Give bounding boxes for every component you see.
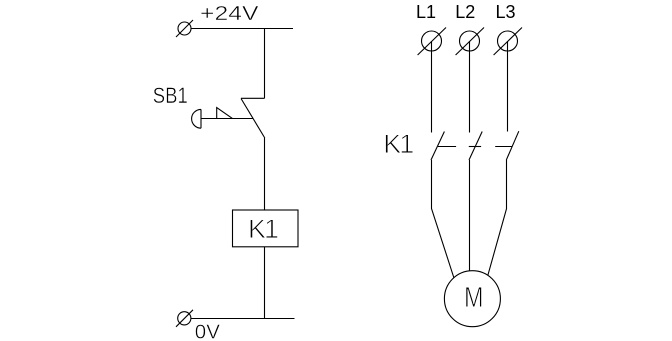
pushbutton SB1 spring-return triangle: [217, 108, 233, 119]
terminal +24V: [176, 20, 193, 37]
contact SB1 fixed-terminal jog: [241, 97, 265, 99]
svg-text:+24V: +24V: [200, 2, 259, 25]
wire pole 2 to motor: [469, 160, 471, 271]
svg-text:SB1: SB1: [153, 83, 188, 108]
svg-text:L1: L1: [416, 2, 436, 22]
mechanical linkage dash 1: [438, 146, 456, 148]
svg-text:L3: L3: [496, 2, 516, 22]
wire +24V bus: [191, 28, 293, 30]
wire L3 to contact pole 3: [507, 41, 509, 132]
terminal 0V: [176, 310, 193, 327]
pushbutton SB1 actuator: [192, 109, 201, 128]
svg-text:K1: K1: [383, 129, 413, 159]
wire L1 to contact pole 1: [431, 41, 433, 133]
svg-text:K1: K1: [248, 214, 278, 244]
pushbutton SB1 plunger rod: [201, 118, 253, 120]
terminal L3: [494, 28, 522, 56]
wire K1 coil to 0V bus: [264, 247, 266, 319]
terminal L1: [418, 28, 446, 56]
wire junction down to SB1 fixed contact: [264, 29, 266, 99]
contact K1 pole 3 moving contact: [506, 131, 519, 160]
contact SB1 moving contact: [241, 99, 265, 139]
contact K1 pole 2 moving contact: [469, 132, 482, 161]
motor M circle: [444, 271, 500, 327]
relay coil K1: [233, 210, 299, 247]
mechanical linkage dash 3: [495, 146, 512, 148]
wire pole 1 to motor: [432, 160, 454, 278]
svg-text:M: M: [464, 282, 484, 314]
wire SB1 to K1 coil: [264, 138, 266, 210]
wire 0V bus: [191, 318, 295, 320]
svg-text:0V: 0V: [195, 321, 220, 341]
terminal L2: [456, 28, 484, 56]
mechanical linkage dash 2: [469, 146, 481, 148]
svg-text:L2: L2: [455, 2, 475, 22]
wire pole 3 to motor: [488, 160, 507, 275]
wire L2 to contact pole 2: [469, 41, 471, 133]
contact K1 pole 1 moving contact: [431, 132, 444, 161]
